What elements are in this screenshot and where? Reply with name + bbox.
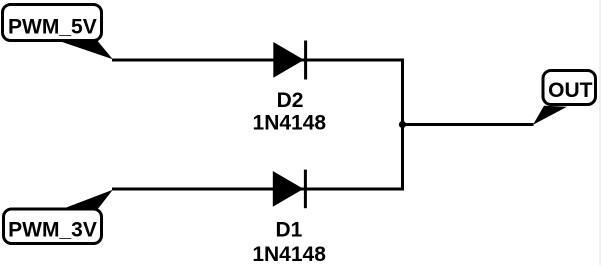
svg-text:PWM_5V: PWM_5V — [8, 15, 97, 38]
svg-text:OUT: OUT — [548, 79, 593, 102]
net label PWM_5V — [3, 5, 113, 60]
net label PWM_3V — [4, 190, 113, 244]
svg-text:1N4148: 1N4148 — [253, 111, 327, 134]
wire PWM_5V to node (top horizontal) — [112, 59, 404, 62]
svg-text:PWM_3V: PWM_3V — [8, 219, 97, 242]
wire node to OUT flag — [403, 123, 534, 126]
canvas right border line — [599, 0, 601, 265]
diode D1 — [273, 170, 306, 209]
net label OUT — [533, 71, 596, 125]
diode D2 — [273, 41, 305, 80]
svg-text:D1: D1 — [275, 218, 302, 241]
svg-text:D2: D2 — [277, 89, 304, 112]
wire PWM_3V to node (bottom horizontal) — [112, 188, 404, 191]
wire vertical bus joining cathodes — [401, 59, 404, 191]
svg-text:1N4148: 1N4148 — [252, 243, 326, 265]
junction node OUT — [399, 121, 406, 128]
